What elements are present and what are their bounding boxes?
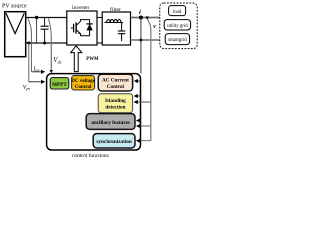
wire DC bus bottom	[26, 42, 67, 44]
svg-text:Control: Control	[107, 84, 125, 90]
capacitor Cf	[118, 23, 125, 42]
svg-text:smartgrid: smartgrid	[168, 38, 187, 43]
smartgrid box	[165, 34, 189, 45]
diode D1	[89, 20, 91, 36]
wire i measurement	[140, 18, 142, 74]
AC Current Control box	[98, 74, 132, 91]
svg-text:i: i	[139, 9, 141, 16]
node Vpv tap on bottom bus	[27, 42, 30, 45]
svg-text:Vpv: Vpv	[23, 85, 31, 91]
PV panel	[5, 12, 26, 57]
capacitor Cdc	[41, 18, 49, 44]
synchronization box	[93, 134, 135, 148]
arrow i to AC Current Control	[135, 80, 141, 82]
filter box	[102, 12, 130, 45]
inverter box	[67, 11, 97, 45]
wire inverter to filter bottom	[97, 42, 102, 44]
arrow i to ancillary features	[137, 120, 141, 122]
svg-text:v: v	[153, 24, 156, 30]
svg-text:AC Current: AC Current	[102, 78, 129, 84]
svg-text:load: load	[173, 10, 182, 15]
node i on AC top	[139, 16, 143, 20]
arrow v to synchronization	[137, 140, 151, 142]
svg-text:utility grid: utility grid	[167, 24, 188, 29]
wire AC top (filter to grid)	[131, 17, 160, 19]
svg-text:PV source: PV source	[2, 3, 27, 9]
svg-text:ancillary features: ancillary features	[91, 120, 130, 126]
wire Vdc measurement with arc	[48, 18, 51, 38]
wire v measurement with arc	[147, 18, 151, 28]
node capacitor to bottom bus	[43, 42, 46, 45]
svg-text:DC voltage: DC voltage	[71, 79, 96, 84]
wire Ipv measurement with arc	[28, 18, 32, 31]
arrow i to Islanding detection	[134, 95, 141, 97]
svg-text:Islanding: Islanding	[105, 98, 126, 104]
node v tap on AC top	[146, 16, 149, 19]
wire inverter to filter top	[97, 17, 102, 19]
svg-text:PWM: PWM	[86, 57, 99, 62]
wire AC bottom (filter to grid)	[131, 39, 160, 41]
utility grid box	[164, 20, 190, 30]
svg-text:synchronization: synchronization	[96, 139, 131, 145]
wire vertical tap from top bus node	[36, 18, 38, 43]
Islanding detection box	[98, 94, 132, 113]
svg-text:inverter: inverter	[72, 5, 90, 11]
node on AC bottom	[139, 39, 142, 42]
ancillary features box	[86, 114, 135, 130]
svg-text:Ipv: Ipv	[33, 66, 40, 72]
wire Vpv measurement	[28, 43, 30, 82]
wire DC bus top	[26, 17, 67, 19]
DC voltage Control box	[72, 76, 95, 90]
inductor L	[105, 20, 124, 23]
PWM block arrow	[71, 46, 82, 72]
arrow v to ancillary features	[137, 125, 151, 127]
MPPT box	[50, 78, 69, 89]
svg-text:MPPT: MPPT	[52, 82, 67, 88]
IGBT Q1 with diode	[71, 20, 93, 36]
arrow v to Islanding detection	[134, 101, 150, 103]
node on top DC bus	[35, 16, 38, 19]
control functions block	[47, 74, 141, 150]
load box	[169, 6, 186, 16]
grid dashed box	[160, 3, 197, 49]
svg-text:control functions: control functions	[72, 152, 109, 159]
svg-text:Control: Control	[75, 85, 92, 90]
svg-text:detection: detection	[105, 105, 125, 111]
